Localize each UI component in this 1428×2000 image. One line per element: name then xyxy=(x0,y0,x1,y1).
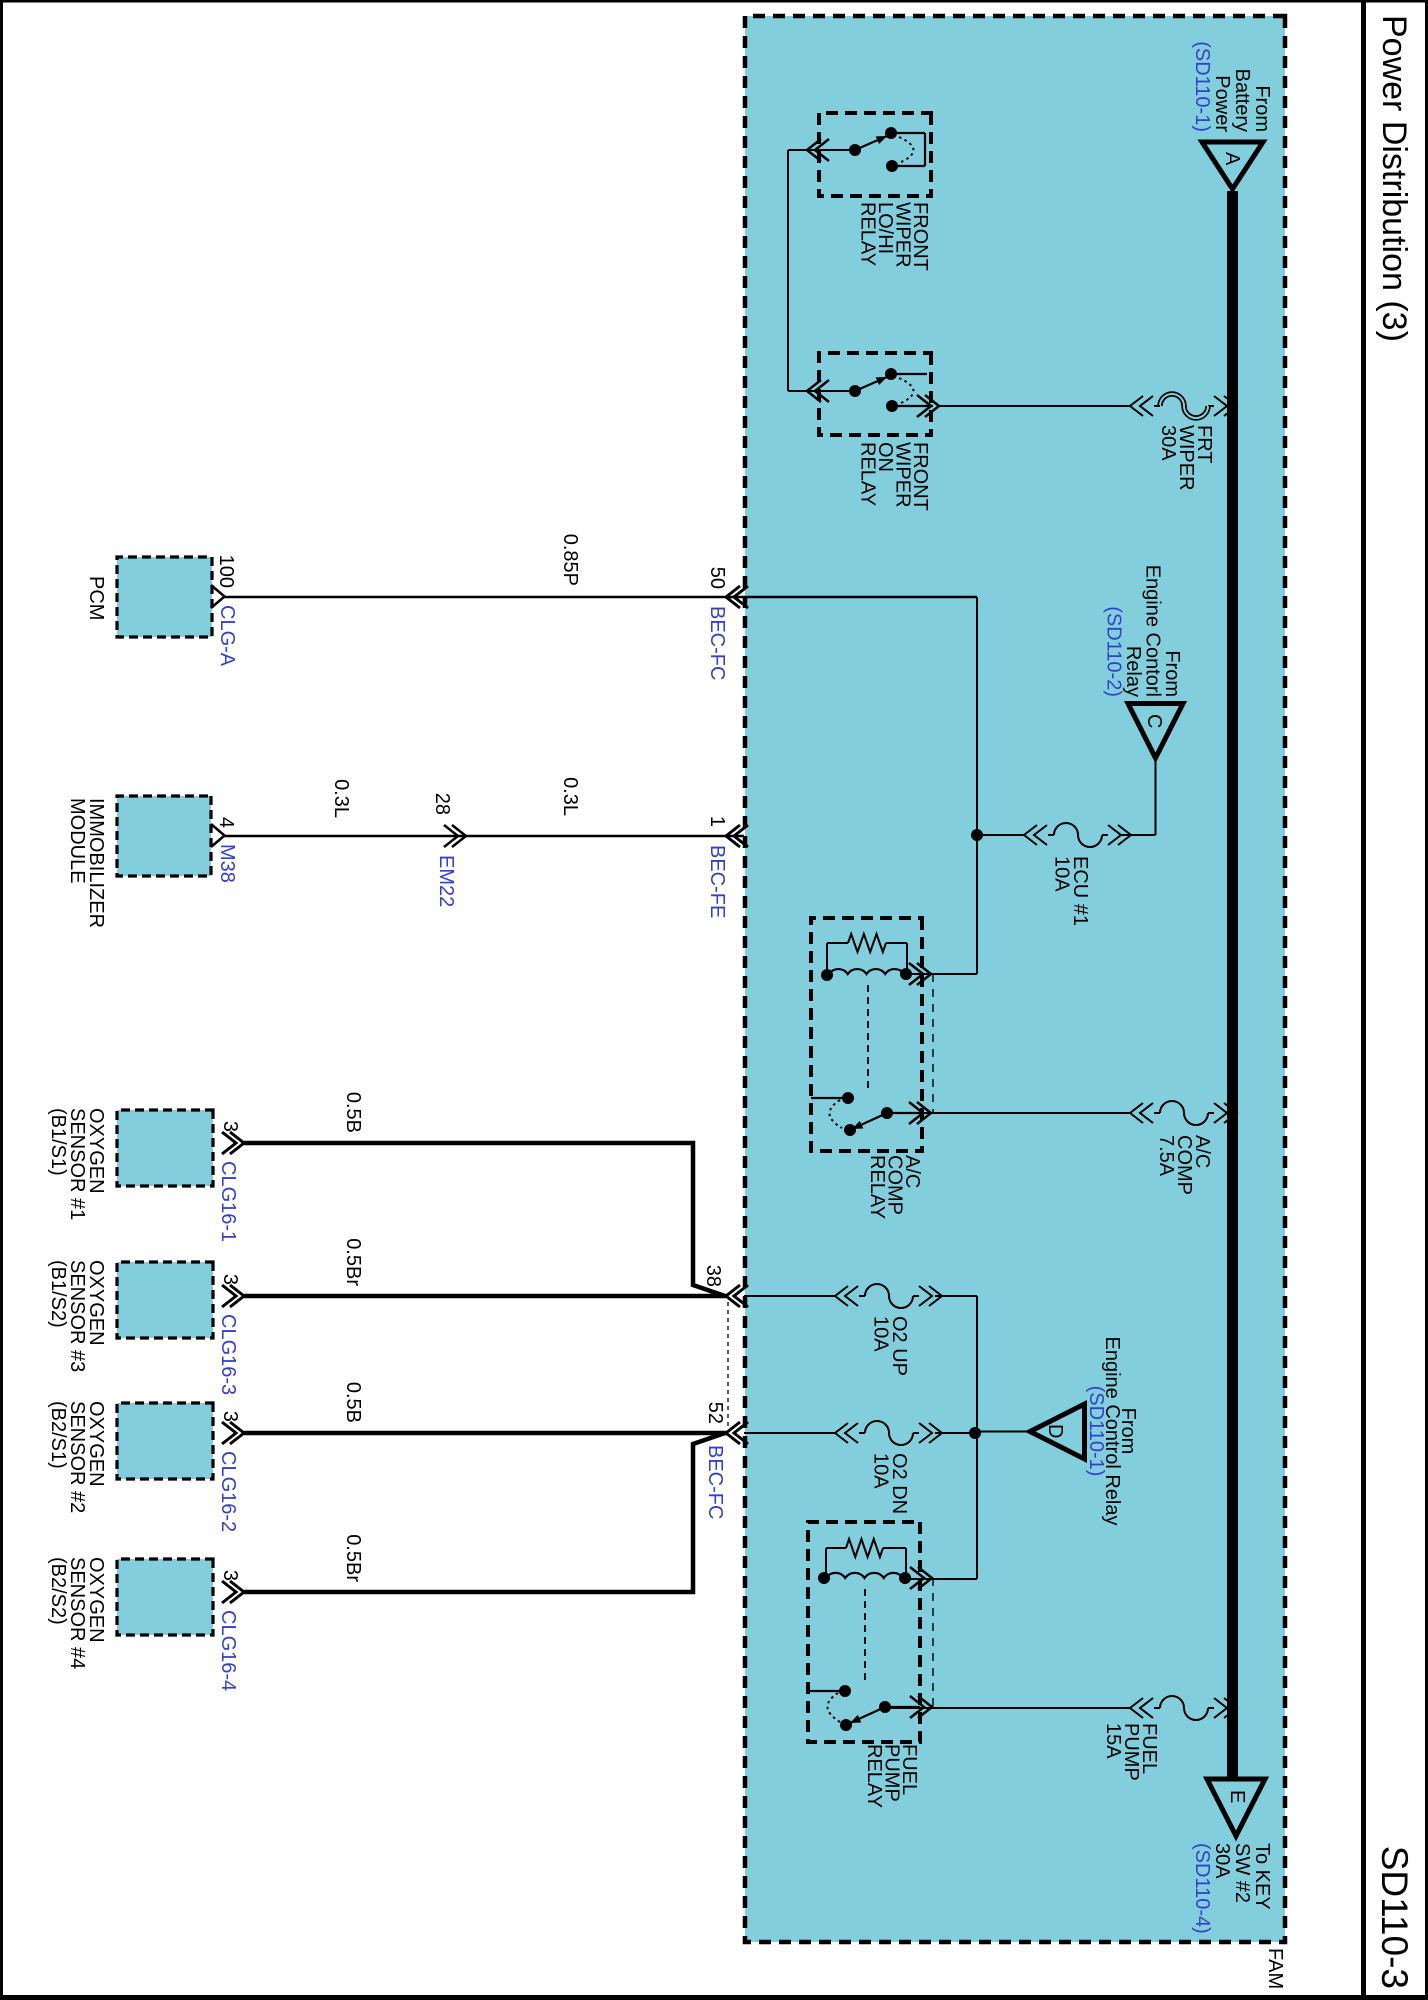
svg-text:(B1/S2): (B1/S2) xyxy=(47,1260,69,1328)
svg-text:CLG16-2: CLG16-2 xyxy=(217,1451,239,1532)
svg-text:0.3L: 0.3L xyxy=(330,779,352,818)
svg-text:SENSOR #4: SENSOR #4 xyxy=(66,1557,88,1669)
svg-text:RELAY: RELAY xyxy=(857,202,879,266)
svg-text:CLG16-3: CLG16-3 xyxy=(217,1314,239,1395)
svg-text:RELAY: RELAY xyxy=(866,1155,888,1219)
svg-text:(B2/S1): (B2/S1) xyxy=(47,1401,69,1469)
svg-text:0.5B: 0.5B xyxy=(342,1382,364,1423)
svg-text:CLG16-1: CLG16-1 xyxy=(217,1161,239,1242)
svg-text:E: E xyxy=(1226,1790,1248,1803)
svg-text:PCM: PCM xyxy=(85,576,107,620)
svg-text:15A: 15A xyxy=(1102,1723,1124,1759)
svg-text:BEC-FE: BEC-FE xyxy=(706,845,728,918)
svg-text:38: 38 xyxy=(702,1265,724,1287)
svg-text:28: 28 xyxy=(431,793,453,815)
svg-text:SD110-3: SD110-3 xyxy=(1374,1846,1415,1989)
svg-text:3: 3 xyxy=(219,1274,241,1285)
svg-text:EM22: EM22 xyxy=(435,855,457,907)
svg-text:(SD110-2): (SD110-2) xyxy=(1103,606,1125,697)
svg-text:3: 3 xyxy=(219,1121,241,1132)
svg-text:SENSOR #2: SENSOR #2 xyxy=(66,1401,88,1513)
svg-text:0.5B: 0.5B xyxy=(342,1092,364,1133)
svg-text:OXYGEN: OXYGEN xyxy=(85,1108,107,1194)
svg-text:0.3L: 0.3L xyxy=(559,777,581,816)
svg-text:3: 3 xyxy=(219,1570,241,1581)
svg-text:1: 1 xyxy=(706,816,728,827)
svg-text:D: D xyxy=(1044,1424,1066,1438)
svg-text:M38: M38 xyxy=(216,844,238,883)
svg-text:(SD110-4): (SD110-4) xyxy=(1191,1843,1213,1934)
svg-text:SENSOR #1: SENSOR #1 xyxy=(66,1108,88,1220)
svg-text:(SD110-1): (SD110-1) xyxy=(1085,1386,1107,1477)
svg-text:IMMOBILIZER: IMMOBILIZER xyxy=(85,798,107,928)
svg-text:(B1/S1): (B1/S1) xyxy=(47,1108,69,1176)
svg-text:10A: 10A xyxy=(870,1453,892,1489)
svg-text:(SD110-1): (SD110-1) xyxy=(1191,41,1213,132)
svg-text:30A: 30A xyxy=(1211,1843,1233,1879)
svg-text:RELAY: RELAY xyxy=(863,1744,885,1808)
svg-text:100: 100 xyxy=(215,555,237,588)
svg-text:MODULE: MODULE xyxy=(66,798,88,884)
svg-text:C: C xyxy=(1143,714,1165,728)
svg-text:SW #2: SW #2 xyxy=(1231,1843,1253,1903)
svg-text:4: 4 xyxy=(215,817,237,828)
svg-text:Power Distribution (3): Power Distribution (3) xyxy=(1375,15,1413,342)
svg-text:CLG-A: CLG-A xyxy=(216,605,238,667)
svg-text:BEC-FC: BEC-FC xyxy=(704,1445,726,1519)
svg-text:RELAY: RELAY xyxy=(857,442,879,506)
svg-text:CLG16-4: CLG16-4 xyxy=(217,1610,239,1691)
svg-text:BEC-FC: BEC-FC xyxy=(706,606,728,680)
svg-text:Power: Power xyxy=(1211,75,1233,132)
svg-text:To KEY: To KEY xyxy=(1251,1843,1273,1910)
svg-text:52: 52 xyxy=(704,1402,726,1424)
svg-text:OXYGEN: OXYGEN xyxy=(85,1260,107,1346)
svg-text:OXYGEN: OXYGEN xyxy=(85,1401,107,1487)
svg-text:FAM: FAM xyxy=(1264,1948,1286,1989)
svg-text:0.85P: 0.85P xyxy=(559,534,581,586)
svg-text:A: A xyxy=(1221,152,1243,166)
svg-text:(B2/S2): (B2/S2) xyxy=(47,1557,69,1625)
svg-text:OXYGEN: OXYGEN xyxy=(85,1557,107,1643)
svg-text:From: From xyxy=(1251,85,1273,132)
svg-text:Battery: Battery xyxy=(1231,69,1253,132)
svg-text:50: 50 xyxy=(706,567,728,589)
svg-text:0.5Br: 0.5Br xyxy=(342,1238,364,1286)
svg-text:30A: 30A xyxy=(1157,425,1179,461)
svg-text:From: From xyxy=(1161,650,1183,697)
svg-text:10A: 10A xyxy=(1051,856,1073,892)
svg-text:7.5A: 7.5A xyxy=(1155,1135,1177,1177)
svg-text:Engine Contorl: Engine Contorl xyxy=(1142,565,1164,697)
svg-text:Relay: Relay xyxy=(1122,646,1144,697)
svg-text:0.5Br: 0.5Br xyxy=(342,1534,364,1582)
svg-text:SENSOR #3: SENSOR #3 xyxy=(66,1260,88,1372)
svg-text:3: 3 xyxy=(219,1411,241,1422)
svg-text:10A: 10A xyxy=(870,1316,892,1352)
